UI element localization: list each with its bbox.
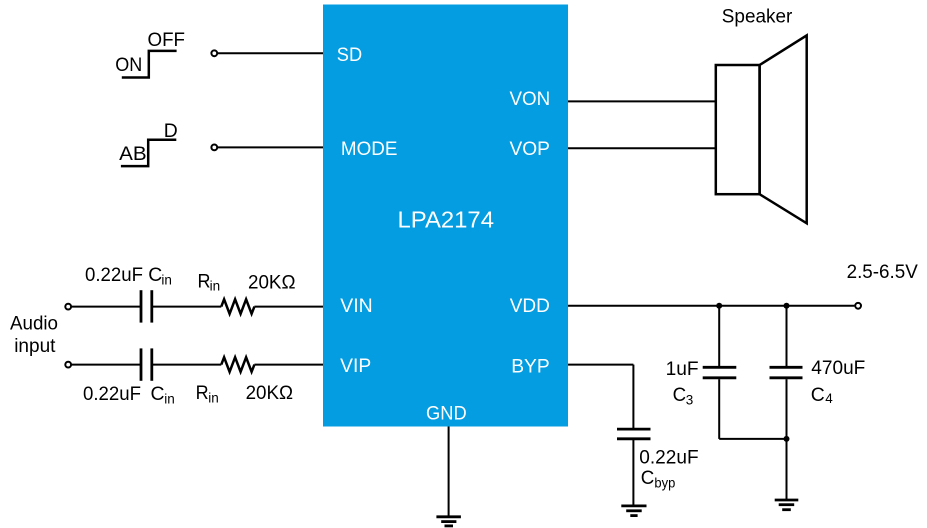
svg-text:R: R: [196, 382, 209, 404]
svg-text:OFF: OFF: [148, 29, 186, 51]
svg-text:C: C: [151, 383, 165, 405]
svg-text:D: D: [164, 120, 178, 142]
svg-text:AB: AB: [119, 143, 147, 165]
svg-text:C: C: [811, 384, 825, 406]
svg-text:20KΩ: 20KΩ: [246, 382, 294, 404]
svg-text:C: C: [641, 467, 655, 489]
svg-text:byp: byp: [654, 476, 675, 491]
svg-text:R: R: [198, 271, 211, 293]
svg-text:GND: GND: [426, 403, 467, 425]
svg-text:VON: VON: [510, 88, 551, 110]
svg-text:in: in: [164, 391, 175, 406]
svg-text:0.22uF: 0.22uF: [639, 446, 698, 468]
svg-text:in: in: [208, 390, 219, 405]
svg-text:VOP: VOP: [510, 138, 550, 160]
svg-text:VDD: VDD: [510, 295, 550, 317]
svg-text:ON: ON: [115, 54, 142, 76]
svg-text:3: 3: [686, 393, 694, 408]
svg-text:2.5-6.5V: 2.5-6.5V: [847, 261, 918, 283]
svg-text:4: 4: [825, 391, 833, 406]
svg-text:Speaker: Speaker: [722, 6, 793, 28]
svg-text:in: in: [161, 273, 172, 288]
svg-text:in: in: [210, 279, 221, 294]
svg-text:MODE: MODE: [341, 138, 398, 160]
svg-text:1uF: 1uF: [666, 358, 699, 380]
svg-text:SD: SD: [337, 44, 362, 66]
svg-text:input: input: [14, 335, 56, 357]
svg-text:VIN: VIN: [340, 295, 372, 317]
svg-text:0.22uF: 0.22uF: [83, 383, 141, 405]
svg-text:20KΩ: 20KΩ: [248, 271, 296, 293]
svg-text:470uF: 470uF: [811, 357, 865, 379]
svg-text:Audio: Audio: [10, 312, 58, 334]
svg-text:C: C: [148, 264, 162, 286]
svg-text:0.22uF: 0.22uF: [85, 264, 143, 286]
svg-text:LPA2174: LPA2174: [398, 207, 495, 233]
svg-text:C: C: [673, 384, 687, 406]
svg-text:VIP: VIP: [340, 355, 371, 377]
svg-text:BYP: BYP: [511, 355, 550, 377]
